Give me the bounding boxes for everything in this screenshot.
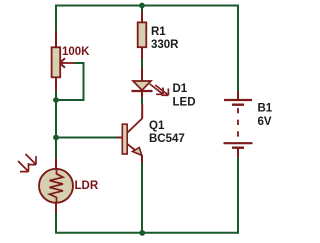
wire battery to bottom rail — [237, 158, 239, 234]
LED D1 — [132, 68, 169, 97]
wire base — [56, 137, 117, 139]
wire left rail upper — [55, 5, 57, 32]
svg-text:BC547: BC547 — [149, 133, 185, 145]
node top junction — [139, 3, 145, 9]
svg-text:D1: D1 — [173, 83, 188, 95]
wire pot wiper loop — [58, 63, 84, 100]
wire bottom rail — [56, 232, 238, 234]
wire LDR to bottom rail — [55, 213, 57, 233]
transistor Q1 — [117, 105, 143, 164]
wire right rail upper — [237, 5, 239, 92]
node bottom junction — [139, 230, 145, 236]
potentiometer 100K — [52, 32, 74, 92]
svg-text:Q1: Q1 — [149, 120, 165, 132]
resistor R1 — [138, 12, 147, 59]
wire D1 to Q1 collector — [141, 97, 143, 105]
svg-text:LED: LED — [173, 96, 196, 108]
node wiper junction — [53, 97, 59, 103]
LDR — [18, 154, 73, 213]
wire left rail bottom corner — [55, 232, 57, 234]
node base junction — [53, 135, 59, 141]
wire R1 to D1 — [141, 59, 143, 69]
wire emitter down — [141, 163, 143, 233]
wire R1 top stub — [141, 6, 143, 12]
wire left rail middle — [55, 92, 57, 159]
svg-text:LDR: LDR — [75, 180, 99, 192]
svg-text:R1: R1 — [151, 26, 166, 38]
battery B1 — [224, 91, 253, 158]
svg-text:100K: 100K — [62, 46, 90, 58]
svg-text:6V: 6V — [258, 116, 272, 128]
svg-text:330R: 330R — [151, 39, 179, 51]
wire top rail — [56, 5, 238, 7]
svg-text:B1: B1 — [258, 103, 273, 115]
